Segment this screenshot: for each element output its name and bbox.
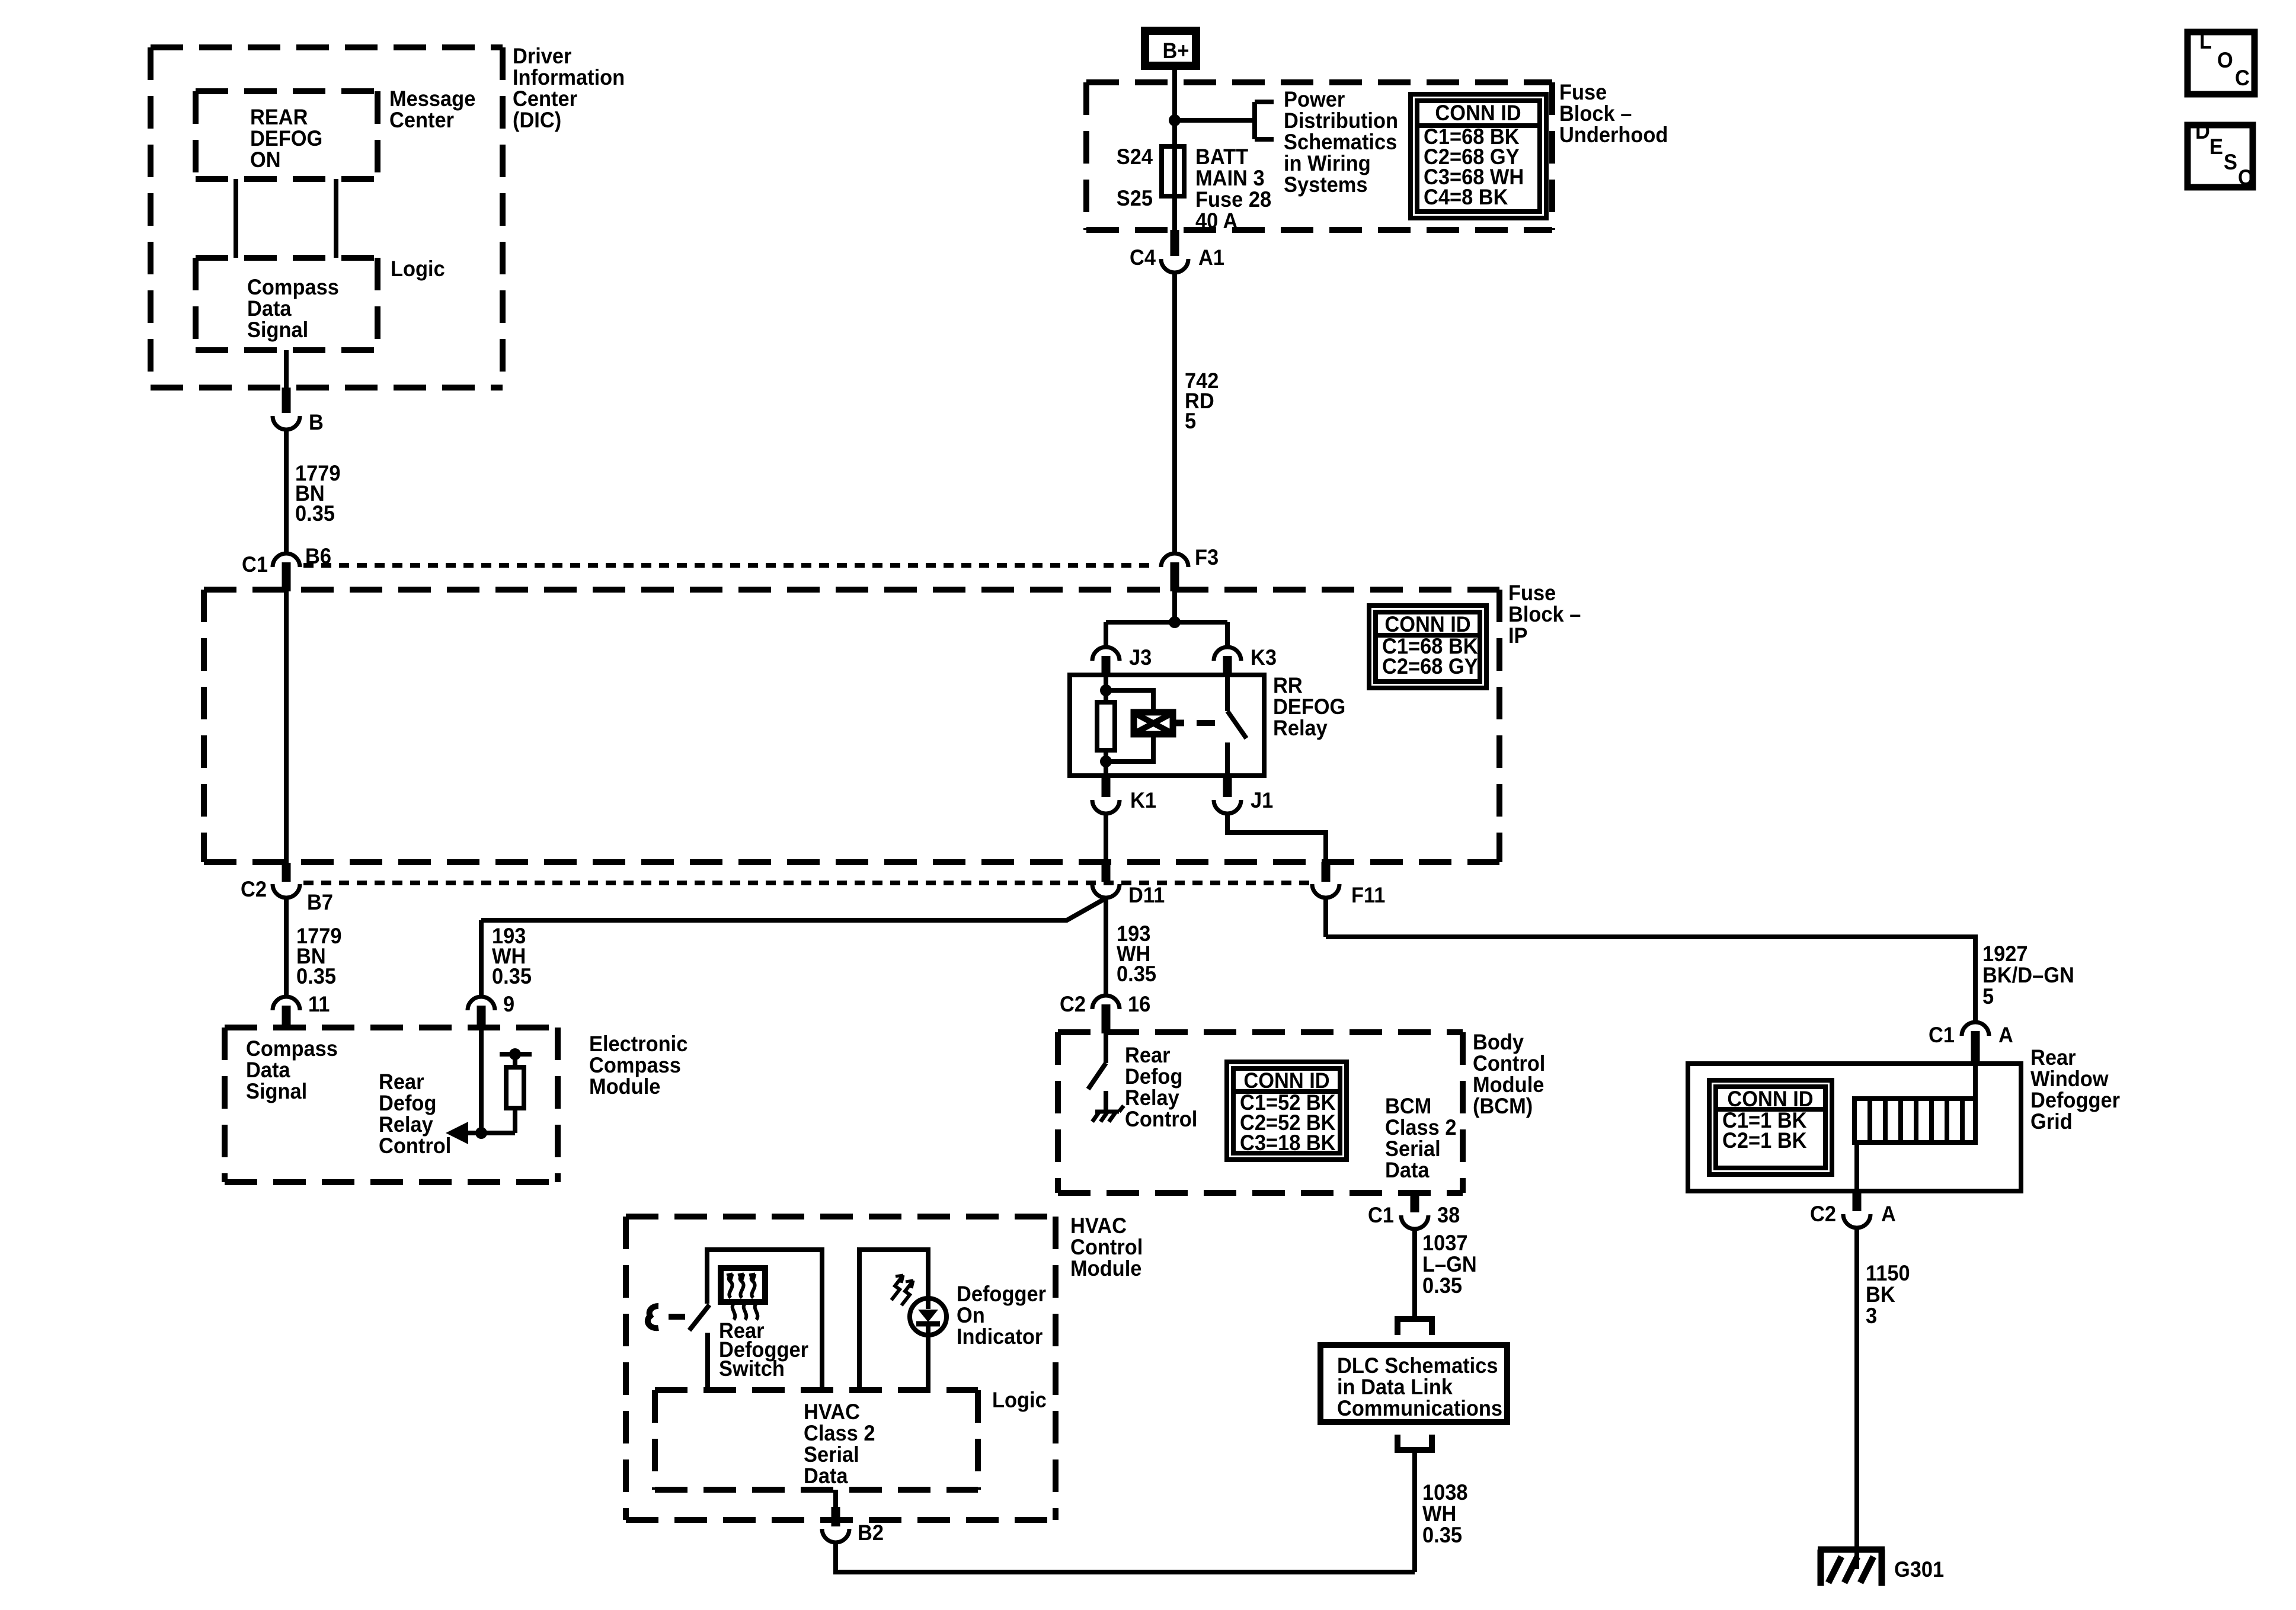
svg-text:0.35: 0.35	[1422, 1273, 1462, 1298]
svg-text:5: 5	[1982, 984, 1994, 1009]
svg-text:Module: Module	[589, 1074, 660, 1099]
svg-text:40 A: 40 A	[1195, 209, 1237, 233]
svg-text:D11: D11	[1128, 883, 1165, 907]
svg-text:A: A	[1998, 1023, 2013, 1047]
svg-text:B+: B+	[1163, 39, 1189, 63]
svg-text:S: S	[2224, 150, 2237, 174]
svg-text:C2: C2	[1810, 1202, 1836, 1226]
svg-text:9: 9	[503, 992, 514, 1016]
svg-text:(DIC): (DIC)	[513, 108, 561, 132]
svg-text:F11: F11	[1351, 883, 1385, 907]
svg-text:L: L	[2199, 29, 2212, 53]
svg-text:S25: S25	[1117, 186, 1153, 210]
svg-text:Underhood: Underhood	[1559, 123, 1668, 147]
svg-text:Grid: Grid	[2030, 1109, 2073, 1134]
svg-text:C: C	[2238, 165, 2253, 190]
svg-text:0.35: 0.35	[492, 964, 532, 988]
svg-text:C2=1 BK: C2=1 BK	[1722, 1128, 1807, 1153]
svg-text:BK/D–GN: BK/D–GN	[1982, 963, 2074, 987]
svg-text:Logic: Logic	[391, 257, 445, 281]
svg-text:S24: S24	[1117, 145, 1153, 169]
svg-text:B7: B7	[307, 890, 333, 914]
svg-text:C: C	[2235, 66, 2250, 90]
svg-text:3: 3	[1866, 1304, 1877, 1328]
svg-text:Systems: Systems	[1284, 172, 1368, 197]
svg-text:K1: K1	[1130, 788, 1156, 812]
svg-text:Indicator: Indicator	[957, 1324, 1043, 1349]
svg-text:E: E	[2209, 135, 2223, 159]
svg-text:B2: B2	[858, 1521, 884, 1545]
svg-text:A: A	[1881, 1202, 1896, 1226]
svg-text:0.35: 0.35	[295, 501, 335, 526]
svg-text:C3=18 BK: C3=18 BK	[1240, 1131, 1336, 1155]
svg-text:Control: Control	[1125, 1107, 1197, 1131]
svg-text:16: 16	[1128, 992, 1150, 1016]
svg-text:A1: A1	[1198, 245, 1224, 270]
svg-text:11: 11	[308, 992, 330, 1016]
svg-text:C4=8 BK: C4=8 BK	[1424, 185, 1508, 209]
svg-text:J1: J1	[1251, 788, 1273, 812]
svg-text:Data: Data	[1385, 1158, 1430, 1182]
svg-text:0.35: 0.35	[1117, 962, 1156, 986]
svg-text:C1: C1	[1929, 1023, 1955, 1047]
svg-text:IP: IP	[1508, 623, 1528, 648]
svg-text:38: 38	[1437, 1203, 1460, 1227]
svg-text:Signal: Signal	[246, 1079, 307, 1103]
svg-text:ON: ON	[250, 148, 281, 172]
svg-text:0.35: 0.35	[296, 964, 336, 988]
svg-text:C1: C1	[242, 552, 268, 577]
svg-text:Control: Control	[379, 1134, 451, 1158]
svg-text:J3: J3	[1129, 645, 1152, 670]
svg-text:Module: Module	[1070, 1256, 1141, 1281]
svg-text:0.35: 0.35	[1422, 1523, 1462, 1547]
svg-text:Signal: Signal	[247, 318, 308, 342]
svg-text:CONN ID: CONN ID	[1243, 1068, 1329, 1093]
svg-text:C4: C4	[1130, 245, 1156, 270]
svg-text:(BCM): (BCM)	[1473, 1094, 1533, 1118]
svg-text:CONN ID: CONN ID	[1384, 612, 1470, 636]
svg-text:Switch: Switch	[719, 1356, 785, 1381]
svg-text:CONN ID: CONN ID	[1435, 101, 1521, 125]
svg-text:C1: C1	[1368, 1203, 1394, 1227]
svg-text:C2: C2	[241, 877, 267, 901]
svg-text:Center: Center	[389, 108, 454, 132]
svg-text:D: D	[2195, 119, 2210, 143]
svg-text:Data: Data	[804, 1464, 849, 1488]
svg-text:O: O	[2217, 48, 2233, 72]
svg-text:K3: K3	[1251, 645, 1277, 670]
svg-text:B: B	[309, 410, 324, 434]
svg-text:F3: F3	[1195, 545, 1219, 569]
svg-text:C2: C2	[1060, 992, 1086, 1016]
svg-text:C2=68 GY: C2=68 GY	[1382, 654, 1478, 678]
svg-text:G301: G301	[1894, 1557, 1944, 1582]
svg-text:Relay: Relay	[1273, 716, 1328, 740]
svg-text:Logic: Logic	[992, 1388, 1047, 1412]
svg-text:Communications: Communications	[1337, 1396, 1502, 1420]
svg-text:5: 5	[1185, 409, 1196, 433]
